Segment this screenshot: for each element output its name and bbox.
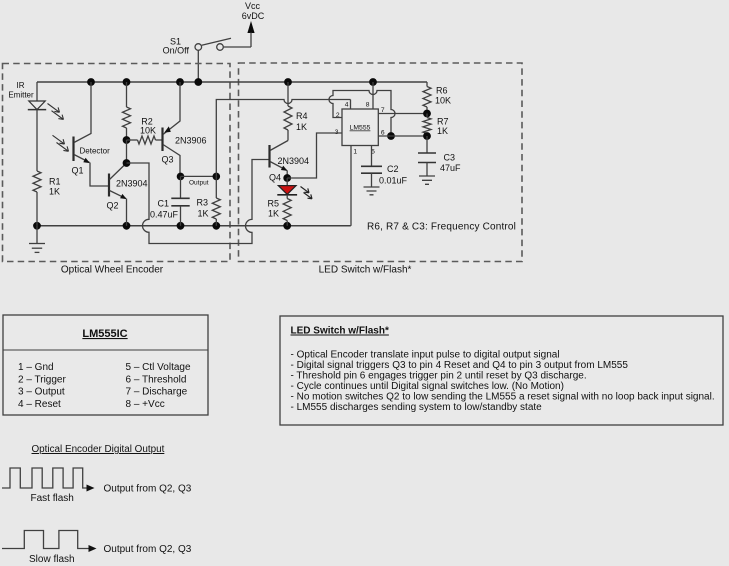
svg-text:1K: 1K xyxy=(268,209,279,219)
svg-text:- Cycle continues until Digita: - Cycle continues until Digital signal s… xyxy=(291,381,564,392)
svg-text:10K: 10K xyxy=(140,126,156,136)
capacitor C2 0.01uF xyxy=(361,146,408,195)
node Output xyxy=(177,173,185,181)
svg-text:0.47uF: 0.47uF xyxy=(150,210,179,220)
SECTION: waveforms xyxy=(2,444,192,565)
svg-text:Q3: Q3 xyxy=(162,155,174,165)
svg-text:C1: C1 xyxy=(157,199,169,209)
svg-text:2N3904: 2N3904 xyxy=(278,156,310,166)
wire Q2 collector to Q4 base (hops over ground rails) xyxy=(127,160,270,244)
node Q4 emitter / pin3 junction xyxy=(283,174,291,182)
svg-text:On/Off: On/Off xyxy=(163,46,190,56)
svg-text:Q4: Q4 xyxy=(269,173,281,183)
svg-text:- LM555 discharges sending sys: - LM555 discharges sending system to low… xyxy=(291,402,543,413)
IC U1 LM555 xyxy=(342,109,378,146)
IR emitter light arrows xyxy=(48,104,64,120)
svg-text:3 – Output: 3 – Output xyxy=(18,387,65,398)
LED red flash diode xyxy=(277,178,297,195)
svg-text:8 – +Vcc: 8 – +Vcc xyxy=(126,399,165,410)
node R2 base junction xyxy=(123,136,131,144)
svg-text:8: 8 xyxy=(366,102,370,109)
svg-text:Q1: Q1 xyxy=(72,166,84,176)
node Q2 emitter on ground rail xyxy=(123,222,131,230)
wire Vcc top rail xyxy=(37,81,427,83)
svg-text:Optical Encoder Digital Output: Optical Encoder Digital Output xyxy=(32,444,165,455)
svg-text:2N3906: 2N3906 xyxy=(175,136,207,146)
power Vcc arrow symbol xyxy=(247,21,254,33)
svg-text:C2: C2 xyxy=(387,164,399,174)
transistor Q3 2N3906 xyxy=(162,82,207,176)
svg-text:Optical Wheel Encoder: Optical Wheel Encoder xyxy=(61,265,164,276)
svg-text:R6, R7 & C3: Frequency Contro: R6, R7 & C3: Frequency Control xyxy=(367,222,516,233)
svg-text:10K: 10K xyxy=(435,96,451,106)
svg-text:- Optical Encoder translate in: - Optical Encoder translate input pulse … xyxy=(291,350,560,361)
svg-text:Output from Q2, Q3: Output from Q2, Q3 xyxy=(104,484,192,495)
SECTION: dashed boxes xyxy=(3,63,523,276)
node divider resistor on Vcc rail xyxy=(123,78,131,86)
svg-text:LM555: LM555 xyxy=(350,125,371,132)
svg-text:4: 4 xyxy=(345,102,349,109)
node Q2 collector junction xyxy=(123,159,131,167)
detector light arrows xyxy=(53,135,69,151)
node R3 on ground rail xyxy=(212,222,220,230)
wire S1 to rail xyxy=(197,50,199,82)
wire pin 1 to ground rail xyxy=(350,146,352,226)
svg-text:1K: 1K xyxy=(296,122,307,132)
svg-text:Detector: Detector xyxy=(80,147,111,156)
ground left xyxy=(29,226,45,253)
enclosure LED Switch w/Flash dashed box xyxy=(239,63,523,262)
resistor R2 10K xyxy=(127,139,138,141)
resistor unlabeled above R2 node xyxy=(126,82,128,107)
svg-text:- No motion switches Q2 to low: - No motion switches Q2 to low sending t… xyxy=(291,392,715,403)
svg-text:1K: 1K xyxy=(437,126,448,136)
waveform fast flash xyxy=(2,468,87,488)
capacitor C3 47uF xyxy=(418,136,461,184)
transistor Q2 2N3904 xyxy=(107,163,148,226)
pin 8 wire xyxy=(372,82,374,109)
svg-text:LED Switch w/Flash*: LED Switch w/Flash* xyxy=(291,326,389,337)
transistor Q4 2N3904 xyxy=(269,141,309,183)
resistor R1 1K xyxy=(33,171,41,192)
svg-text:- Threshold pin 6 engages trig: - Threshold pin 6 engages trigger pin 2 … xyxy=(291,371,587,382)
waveform slow flash xyxy=(2,531,89,549)
SECTION: description box xyxy=(280,316,723,425)
node R4 on Vcc rail xyxy=(284,78,292,86)
node R7/C3/pin6 xyxy=(423,132,431,140)
svg-text:Output from Q2, Q3: Output from Q2, Q3 xyxy=(104,544,192,555)
LED light arrows xyxy=(301,187,313,199)
SECTION: right circuit xyxy=(267,82,516,233)
svg-text:Vcc: Vcc xyxy=(245,1,261,11)
wire pin 2 to pin 6 net (hops signal wire, pin8 wire, pin7 wire) xyxy=(329,91,395,137)
table LM555IC pinout box xyxy=(3,315,208,415)
svg-text:R6: R6 xyxy=(436,86,448,96)
svg-text:2N3904: 2N3904 xyxy=(116,179,148,189)
resistor R5 1K xyxy=(286,195,288,199)
wire pin 7 to R6/R7 node xyxy=(378,113,427,115)
resistor R7 1K xyxy=(426,114,428,118)
switch S1 lever xyxy=(202,38,231,45)
svg-text:5 – Ctl Voltage: 5 – Ctl Voltage xyxy=(126,362,191,373)
capacitor C1 0.47uF xyxy=(150,176,190,225)
SECTION: top power xyxy=(163,1,265,82)
node Q3 emitter on Vcc rail xyxy=(176,78,184,86)
enclosure Optical Wheel Encoder dashed box xyxy=(3,64,231,262)
transistor Q1 Detector phototransistor xyxy=(72,82,111,186)
wire S1 to Vcc xyxy=(223,46,251,48)
svg-text:Slow flash: Slow flash xyxy=(29,554,75,565)
wire output node to R3 xyxy=(181,175,217,177)
svg-text:1: 1 xyxy=(353,149,357,156)
svg-text:1K: 1K xyxy=(49,187,60,197)
svg-text:47uF: 47uF xyxy=(440,163,461,173)
switch S1 contacts xyxy=(195,44,202,51)
svg-text:2 – Trigger: 2 – Trigger xyxy=(18,374,66,385)
svg-text:R4: R4 xyxy=(296,111,308,121)
svg-text:LED Switch w/Flash*: LED Switch w/Flash* xyxy=(319,265,412,276)
svg-text:1 – Gnd: 1 – Gnd xyxy=(18,362,54,373)
svg-text:Emitter: Emitter xyxy=(8,91,34,100)
svg-text:Q2: Q2 xyxy=(107,201,119,211)
node Q1 collector on Vcc rail xyxy=(87,78,95,86)
node R5 on ground rail xyxy=(283,222,291,230)
wire node to Q2 collector node xyxy=(126,140,128,163)
wire ground bottom rail xyxy=(37,225,351,227)
resistor R3 1K xyxy=(197,176,221,225)
note LED Switch w/Flash description box xyxy=(280,316,723,425)
svg-text:LM555IC: LM555IC xyxy=(82,328,127,340)
SECTION: left circuit xyxy=(8,81,350,252)
pin 4 stub xyxy=(350,100,352,110)
svg-text:C3: C3 xyxy=(444,153,456,163)
svg-text:- Digital signal triggers Q3 t: - Digital signal triggers Q3 to pin 4 Re… xyxy=(291,360,629,371)
resistor R6 10K xyxy=(426,82,428,87)
node C1 on ground rail xyxy=(177,222,185,230)
node pin6 net junction xyxy=(387,132,395,140)
svg-text:1K: 1K xyxy=(198,209,209,219)
node R6/R7/pin7 xyxy=(423,110,431,118)
svg-text:7 – Discharge: 7 – Discharge xyxy=(126,387,188,398)
svg-text:6vDC: 6vDC xyxy=(242,11,265,21)
svg-text:6 – Threshold: 6 – Threshold xyxy=(126,374,187,385)
node R1 on ground rail xyxy=(33,222,41,230)
wire pin 3 to Q4 emitter xyxy=(287,133,342,178)
SECTION: lm555 table xyxy=(3,315,208,415)
svg-text:R5: R5 xyxy=(267,199,279,209)
svg-text:4 – Reset: 4 – Reset xyxy=(18,399,61,410)
svg-text:0.01uF: 0.01uF xyxy=(379,176,408,186)
node S1 on Vcc rail xyxy=(194,78,202,86)
SECTION: rails xyxy=(33,78,427,230)
svg-text:IR: IR xyxy=(17,81,25,90)
wire pin 6 to R7/C3 node xyxy=(378,135,427,137)
diode IR Emitter LED xyxy=(8,81,46,171)
svg-text:R1: R1 xyxy=(49,177,61,187)
node pin 8 on Vcc rail xyxy=(369,78,377,86)
resistor R4 1K xyxy=(287,82,289,106)
svg-text:R7: R7 xyxy=(437,117,449,127)
svg-text:R3: R3 xyxy=(197,198,209,208)
svg-text:Output: Output xyxy=(189,180,209,187)
wire digital signal R3 node up and right to pin 4 (hop over R4 riser) xyxy=(216,100,350,177)
svg-text:Fast flash: Fast flash xyxy=(31,493,74,504)
